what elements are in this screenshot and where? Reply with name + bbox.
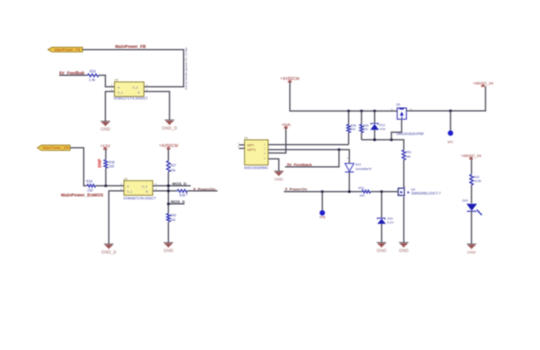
svg-text:10k: 10k: [170, 168, 176, 172]
resistor R19: [470, 175, 473, 186]
junction bus R38: [347, 110, 350, 113]
wire D20 to GND: [471, 211, 473, 244]
zener diode D12: [371, 123, 378, 125]
svg-text:C_2: C_2: [142, 185, 148, 189]
net tag MainPower_EN: [37, 145, 70, 150]
wire P1 left stub b: [239, 147, 245, 149]
junction MOS_S column: [167, 203, 170, 206]
junction TP7 on bus: [449, 110, 452, 113]
wire P1 pin1 to R38: [268, 144, 349, 146]
resistor R38: [347, 124, 350, 132]
svg-text:E: E: [146, 189, 148, 193]
svg-text:MainPower_FB: MainPower_FB: [115, 44, 146, 49]
wire 5V_Feedback stub: [285, 150, 339, 167]
svg-text:MOS_S: MOS_S: [171, 199, 185, 204]
wire R34 to U6 pin1: [96, 185, 124, 187]
svg-text:R37: R37: [170, 163, 176, 167]
svg-text:MPI: MPI: [247, 144, 254, 148]
junction bus R36: [360, 110, 363, 113]
resistor R33: [88, 74, 99, 77]
wire R30 to junction: [105, 168, 107, 186]
svg-text:1.4k: 1.4k: [89, 78, 96, 82]
svg-text:VOM4671TA-03SCT: VOM4671TA-03SCT: [123, 197, 157, 201]
svg-text:MainPower_EN: MainPower_EN: [43, 146, 70, 150]
ground GND under D16: [377, 243, 386, 247]
power +5VA: [284, 127, 288, 128]
power +48VDC_Int top right: [481, 85, 485, 86]
ground GND under U5: [101, 121, 110, 125]
svg-text:R33: R33: [89, 70, 95, 74]
transistor Q6 (N-MOSFET): [398, 188, 403, 196]
junction TP8: [321, 190, 324, 193]
wire P1 pin3 to +5VA: [268, 128, 286, 153]
wire R39 to 5_PowerOn label: [187, 190, 217, 192]
wire R40 to GND: [167, 222, 169, 243]
power +4V5DCM left: [167, 148, 171, 149]
gate rail wire: [362, 140, 404, 150]
svg-text:D20: D20: [462, 199, 468, 203]
svg-text:GND: GND: [164, 248, 174, 253]
svg-text:+48VDC_Int: +48VDC_Int: [461, 154, 481, 158]
ground GND_D right of U5: [165, 120, 174, 124]
ground GND under R40: [164, 243, 173, 247]
wire bus to R38: [348, 111, 350, 124]
wire +4V5DCM down to bus: [290, 82, 397, 111]
wire 5V_Feedbak to R33: [59, 74, 87, 76]
svg-text:R39: R39: [179, 193, 185, 197]
svg-text:MOS_D: MOS_D: [172, 181, 186, 186]
svg-text:+5VA: +5VA: [281, 123, 291, 127]
svg-text:21k: 21k: [363, 127, 368, 131]
wire R32 to Q6 gate: [371, 191, 398, 193]
wire bus to R36: [361, 111, 363, 124]
resistor R32: [362, 190, 371, 193]
svg-text:GND: GND: [399, 248, 409, 253]
junction bus D12: [373, 110, 376, 113]
svg-text:GND: GND: [274, 176, 283, 181]
test point TP8: [320, 210, 325, 215]
wire MainPower_EN tag to R34: [70, 148, 87, 186]
resistor R40: [167, 214, 170, 222]
wire P1 left stub a: [239, 144, 245, 146]
junction 5_PowerOn column: [167, 190, 170, 193]
svg-text:5V_Feedback: 5V_Feedback: [287, 162, 313, 167]
wire R38 to pin1 line: [348, 133, 350, 145]
wire TP7 stem: [450, 111, 452, 131]
svg-text:C_1: C_1: [127, 189, 133, 193]
op-amp U5 optocoupler body: [115, 82, 144, 96]
resistor R36: [360, 124, 363, 132]
wire D16 to GND: [381, 224, 383, 242]
junction R30 bottom: [104, 184, 107, 187]
junction rail D12: [373, 138, 376, 141]
ground GND_D under U6: [104, 244, 113, 248]
power +4V5DCM right: [288, 81, 292, 82]
junction D16 branch: [380, 190, 383, 193]
wire 5_PowerOn left segment: [284, 191, 362, 193]
wire D14 to 5_PowerOn line: [348, 172, 350, 192]
junction rail Q5 gate: [390, 138, 393, 141]
svg-text:0: 0: [186, 192, 188, 196]
wire MainPower_FB tag to U5 pin4: [83, 50, 184, 87]
resistor R37: [167, 161, 170, 172]
power +48VDC_Int LED column: [469, 158, 473, 159]
svg-text:Pull up header glasses S4_12 s: Pull up header glasses S4_12 side: [184, 47, 188, 90]
svg-text:+: +: [347, 156, 349, 160]
svg-text:MPO: MPO: [247, 148, 256, 152]
wire R19 to D20: [471, 185, 473, 203]
svg-text:5_PowerOn: 5_PowerOn: [193, 186, 216, 191]
svg-text:6.2V: 6.2V: [387, 221, 393, 225]
svg-text:GND_D: GND_D: [162, 125, 177, 130]
wire P1 pin2 to D14: [268, 150, 349, 164]
wire R36 to gate rail: [361, 133, 363, 140]
svg-text:R34: R34: [86, 180, 92, 184]
wire U6 pin3 to R39: [153, 190, 178, 192]
zener diode D16: [377, 218, 385, 219]
svg-text:MainPower_EnMOS: MainPower_EnMOS: [61, 193, 103, 198]
svg-text:A: A: [118, 86, 120, 90]
wire bus to D12: [374, 111, 376, 124]
svg-text:330: 330: [109, 164, 115, 168]
diode D14: [345, 163, 354, 171]
ground GND under P1: [274, 171, 283, 175]
svg-text:+48VDC_Int: +48VDC_Int: [473, 81, 493, 85]
svg-text:GND: GND: [101, 127, 111, 132]
op-amp U6 optocoupler body: [124, 181, 153, 196]
net tag MainPower_FB: [48, 47, 83, 52]
svg-text:100: 100: [359, 194, 364, 198]
svg-text:R32: R32: [358, 186, 364, 190]
svg-text:10k: 10k: [351, 127, 356, 131]
wire U5 pin2 to GND: [105, 92, 114, 122]
svg-text:10.0K: 10.0K: [474, 179, 482, 183]
LED D20: [467, 204, 478, 211]
wire D12 to gate rail: [374, 130, 376, 140]
wire R33 to U5 pin1: [99, 75, 115, 86]
wire bus Q5 to +48VDC corner: [406, 86, 485, 111]
svg-text:+12V: +12V: [100, 143, 110, 148]
svg-text:A: A: [127, 185, 129, 189]
test point TP7: [448, 130, 453, 135]
wire P1 pin4 to GND: [268, 159, 279, 171]
wire TP8 stem: [321, 192, 323, 211]
wire U6 pin2 to GND_D: [109, 191, 124, 244]
svg-text:VOM1271T4-3X001T: VOM1271T4-3X001T: [114, 97, 149, 101]
wire Q5 gate: [391, 119, 401, 140]
power +12V: [103, 148, 107, 149]
connector P1 body: [245, 140, 269, 165]
wire U6 pin4 MOS_D stub: [153, 185, 191, 187]
svg-text:P1: P1: [244, 136, 248, 140]
svg-text:E: E: [138, 91, 140, 95]
wire +4V5DCM to R37: [167, 149, 169, 161]
svg-text:4.5V: 4.5V: [380, 127, 386, 131]
svg-text:DNP: DNP: [97, 159, 102, 168]
wire MOS_S stub: [168, 203, 184, 205]
wire R31 to Q6 drain: [403, 160, 405, 187]
svg-text:NXE1S0305MC: NXE1S0305MC: [244, 166, 268, 170]
ground GND under D20: [467, 244, 476, 248]
svg-text:U6: U6: [124, 177, 128, 181]
svg-text:GND: GND: [467, 249, 476, 254]
wire +12V to R30: [105, 149, 107, 159]
svg-text:1N4148W7F: 1N4148W7F: [355, 167, 371, 171]
svg-text:5_PowerOn: 5_PowerOn: [285, 187, 308, 192]
svg-text:DMN3065LCDICT-7: DMN3065LCDICT-7: [411, 192, 441, 196]
svg-text:+4V5DCM: +4V5DCM: [159, 143, 179, 148]
junction MOS_D column: [167, 184, 170, 187]
svg-text:C_2: C_2: [133, 86, 139, 90]
svg-text:TP8: TP8: [319, 216, 325, 220]
wire R37 to R40 column: [167, 172, 169, 214]
ground GND under Q6: [399, 243, 408, 247]
svg-text:D12: D12: [380, 123, 386, 127]
svg-text:Q5: Q5: [396, 102, 400, 106]
svg-text:10k: 10k: [406, 154, 411, 158]
wire +48VDC to R19: [471, 159, 473, 175]
svg-text:U5: U5: [114, 78, 118, 82]
svg-text:+4V5DCM: +4V5DCM: [280, 76, 300, 81]
junction D14 cathode: [348, 190, 351, 193]
resistor R34: [87, 184, 96, 187]
svg-text:GND: GND: [377, 248, 387, 253]
resistor R30: [104, 160, 107, 169]
svg-text:MainPower_FB: MainPower_FB: [54, 48, 80, 52]
svg-text:TP7: TP7: [447, 141, 453, 145]
junction 5V_Feedback branch: [338, 148, 341, 151]
svg-text:GND_D: GND_D: [101, 249, 116, 254]
resistor R31: [402, 150, 405, 160]
transistor Q5 (P-MOSFET): [397, 108, 406, 119]
wire U5 pin3 to GND_D: [144, 92, 170, 120]
svg-text:10k: 10k: [170, 218, 176, 222]
wire Q6 source to GND: [403, 197, 405, 243]
svg-text:C_1: C_1: [118, 91, 124, 95]
wire D16 branch down: [381, 192, 383, 219]
svg-text:R40: R40: [170, 213, 176, 217]
resistor R39: [177, 190, 187, 193]
